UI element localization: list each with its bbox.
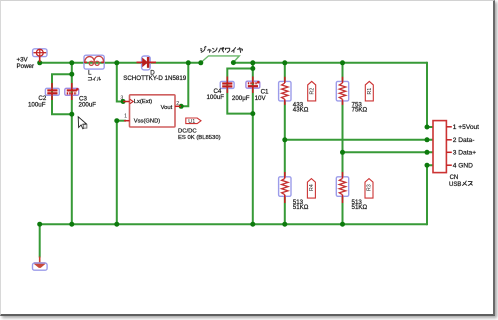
svg-text:4 GND: 4 GND <box>453 163 473 170</box>
wire C2/C3 column <box>71 63 73 224</box>
wire ground drop <box>39 224 41 257</box>
node USB pin4 junction <box>425 163 430 168</box>
label +3V Power <box>17 57 35 70</box>
node Lx riser junction <box>114 60 119 65</box>
node C2 branch top junction <box>69 72 74 77</box>
label 753 75K <box>352 101 368 113</box>
label DC/DC ES 0K (BL8530) <box>178 129 221 142</box>
node C1 ground junction <box>250 222 255 227</box>
power symbol +3V <box>33 49 47 62</box>
wire top rail right (jumper to USB column) <box>233 62 427 64</box>
label jumper wire (katakana) <box>201 46 243 52</box>
R4 tag flag <box>307 179 315 199</box>
svg-text:R3: R3 <box>367 184 373 191</box>
label 513 51K (R3) <box>352 199 368 211</box>
resistor R1 75K body <box>336 77 348 105</box>
capacitor C4 100uF <box>220 77 234 94</box>
wire C4 branch loop <box>227 69 253 114</box>
svg-text:USB: USB <box>449 182 461 188</box>
label L <box>88 70 92 77</box>
svg-text:L: L <box>88 70 92 77</box>
diode D schottky <box>137 56 157 70</box>
resistor R3 51K body <box>336 172 348 203</box>
svg-text:CN: CN <box>450 175 459 181</box>
wire USB pin 1 stub <box>427 126 433 128</box>
resistor R4 51K body <box>279 172 291 203</box>
svg-text:Lx(Ext): Lx(Ext) <box>134 99 152 105</box>
wire Vout riser <box>181 63 188 107</box>
capacitor C3 200uF electrolytic <box>65 83 79 100</box>
wire +5V drop to USB pin 1 <box>427 62 433 127</box>
node jumper left junction <box>198 60 203 65</box>
svg-text:43KΩ: 43KΩ <box>293 107 309 114</box>
resistor R2 43K body <box>279 77 291 105</box>
label C4 100uF <box>206 88 224 101</box>
U1 tag flag <box>186 118 201 124</box>
wire R2/R4 column <box>284 63 286 224</box>
node ground rail left junction <box>37 222 42 227</box>
wire USB pin 4 to ground rail <box>427 165 433 225</box>
svg-text:75KΩ: 75KΩ <box>352 107 368 114</box>
wire ground rail <box>40 223 427 225</box>
connector CN USB body <box>433 121 452 173</box>
label 513 51K (R4) <box>293 199 309 211</box>
mouse cursor <box>78 117 87 129</box>
svg-text:SCHOTTKY-D 1N5819: SCHOTTKY-D 1N5819 <box>123 75 187 82</box>
wire Data- net to USB pin 2 <box>285 139 433 141</box>
wire Data+ net to USB pin 3 <box>343 151 434 153</box>
wire Lx riser to pin 3 <box>117 63 123 102</box>
node R2 top junction <box>282 60 287 65</box>
node C2/C3 top junction <box>69 60 74 65</box>
svg-text:ES 0K (BL8530): ES 0K (BL8530) <box>178 135 221 141</box>
svg-text:2: 2 <box>176 101 179 107</box>
node Data- divider junction <box>282 137 287 142</box>
node C2/C3 ground junction <box>69 222 74 227</box>
label USB female (katakana) <box>449 181 472 188</box>
label C2 100uF <box>28 95 47 108</box>
node Data+ divider junction <box>340 150 345 155</box>
node pin2 Vout junction <box>179 104 184 109</box>
label C1 200uF 10V <box>232 88 269 101</box>
svg-text:Vout: Vout <box>161 105 173 111</box>
svg-text:2 Data-: 2 Data- <box>453 137 475 144</box>
capacitor C2 100uF <box>45 83 59 100</box>
node Vss ground junction <box>114 222 119 227</box>
op-amp / IC U1 DC/DC BL8530 body <box>123 95 181 127</box>
svg-text:3: 3 <box>120 95 123 101</box>
svg-text:10V: 10V <box>255 95 267 102</box>
node pin1 junction <box>114 118 119 123</box>
node USB pin3 junction <box>425 150 430 155</box>
svg-text:51KΩ: 51KΩ <box>352 204 368 211</box>
node C2 branch bottom junction <box>69 112 74 117</box>
node USB pin2 junction <box>425 137 430 142</box>
label 433 43K <box>293 101 309 113</box>
wire Vss pin 1 to ground <box>116 121 118 225</box>
wire jumper (japanese jumper wire) <box>201 56 240 63</box>
node C4 branch bottom junction <box>250 111 255 116</box>
svg-text:51KΩ: 51KΩ <box>293 204 309 211</box>
R2 tag flag <box>308 81 316 101</box>
label C3 200uF <box>79 95 97 108</box>
svg-text:200μF: 200μF <box>232 95 250 102</box>
wire C2 branch loop <box>52 74 72 114</box>
label D SCHOTTKY-D 1N5819 <box>123 70 187 83</box>
svg-text:3 Data+: 3 Data+ <box>453 150 476 157</box>
svg-text:100uF: 100uF <box>206 94 224 101</box>
wire R1/R3 column <box>342 63 344 224</box>
node jumper right junction <box>231 60 236 65</box>
ground symbol <box>33 257 48 271</box>
node power output junction <box>37 60 42 65</box>
svg-text:R4: R4 <box>309 184 315 191</box>
svg-text:DC/DC: DC/DC <box>178 129 197 135</box>
node R1 top junction <box>340 60 345 65</box>
label coil (katakana) <box>88 77 100 81</box>
node Vout riser junction <box>186 60 191 65</box>
svg-text:1: 1 <box>124 113 127 119</box>
wire Vss pin stub <box>117 120 126 122</box>
node C1 top junction <box>250 60 255 65</box>
svg-text:Power: Power <box>17 63 35 70</box>
svg-text:R1: R1 <box>367 88 373 95</box>
svg-text:R2: R2 <box>309 88 315 95</box>
node C4 branch top junction <box>250 66 255 71</box>
svg-text:1 +5Vout: 1 +5Vout <box>453 124 479 131</box>
node USB pin1 junction <box>425 125 430 130</box>
R1 tag flag <box>365 81 373 101</box>
node R4 ground junction <box>282 222 287 227</box>
wire C1 column <box>252 63 254 224</box>
svg-text:Vss(GND): Vss(GND) <box>134 119 160 125</box>
R3 tag flag <box>365 179 373 199</box>
svg-text:U1: U1 <box>188 119 195 125</box>
svg-text:200uF: 200uF <box>79 102 97 109</box>
node pin3 junction <box>121 99 126 104</box>
node R3 ground junction <box>340 222 345 227</box>
inductor L (coil) <box>84 55 104 69</box>
capacitor C1 200uF 10V electrolytic <box>246 77 260 94</box>
svg-text:100uF: 100uF <box>28 101 46 108</box>
wire top rail left (power to jumper) <box>40 62 201 64</box>
USB pin labels <box>453 124 479 169</box>
